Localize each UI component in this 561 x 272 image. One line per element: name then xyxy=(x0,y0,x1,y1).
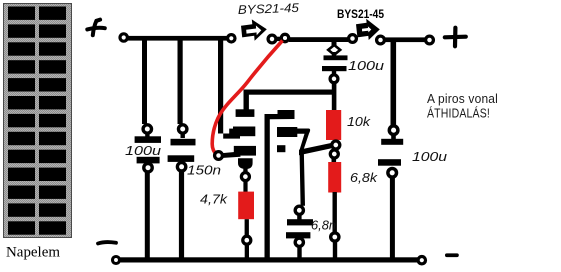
svg-text:150n: 150n xyxy=(187,164,221,178)
bottom rail left terminal circle xyxy=(113,257,120,264)
capacitor C2 plate 2 xyxy=(168,155,195,162)
node circle rail1 right xyxy=(228,35,235,42)
svg-text:Napelem: Napelem xyxy=(6,245,61,261)
capacitor C2 bottom circle xyxy=(177,163,185,171)
stub R3 circle to rail xyxy=(245,245,249,260)
resistor R2 6.8k (red) xyxy=(332,158,337,164)
wire drop to C4 xyxy=(391,40,397,126)
capacitor C4 plate 2 xyxy=(378,159,401,166)
plus terminal (panel +) xyxy=(87,20,105,36)
svg-text:6,8k: 6,8k xyxy=(350,171,378,185)
svg-text:BYS21-45: BYS21-45 xyxy=(337,7,384,21)
red jumper wire xyxy=(212,41,282,156)
node circle R2 bottom xyxy=(331,233,339,241)
svg-text:100u: 100u xyxy=(412,150,447,164)
wire Q1 base to node B (bends down) xyxy=(295,129,310,206)
wire rail 2 xyxy=(289,37,348,42)
capacitor C4 bottom circle xyxy=(388,169,397,178)
transistor Q1 collector plate with corner to ground wire xyxy=(265,110,295,259)
wire drop to C2 xyxy=(178,38,183,124)
node circle after D1 (a) xyxy=(268,35,276,43)
stub circle to R3 xyxy=(243,181,247,192)
thyristor TH1 plate 1 (anode) xyxy=(236,109,255,117)
diode D2 BYS21-45 (filled arrow) xyxy=(356,19,380,40)
bottom rail right terminal circle xyxy=(418,257,425,264)
svg-text:BYS21-45: BYS21-45 xyxy=(238,1,300,17)
svg-text:ÁTHIDALÁS!: ÁTHIDALÁS! xyxy=(427,106,490,121)
wire rail 3 xyxy=(385,37,425,42)
svg-text:4,7k: 4,7k xyxy=(200,193,228,207)
capacitor C5 stub xyxy=(297,214,301,220)
transistor Q1 emitter dash xyxy=(277,145,285,152)
capacitor C5 plate 2 xyxy=(286,232,310,238)
transistor Q1 base plate xyxy=(277,127,297,137)
capacitor C4 100u (right) top circle xyxy=(389,126,398,135)
node circle below R1 xyxy=(332,141,340,149)
thyristor TH1 plate 2 xyxy=(233,127,255,137)
wire drop to C1 xyxy=(142,38,147,124)
wire C1 to bottom rail xyxy=(145,173,150,261)
bottom rail xyxy=(119,257,419,262)
svg-text:6,8n: 6,8n xyxy=(311,219,336,233)
diode D1 BYS21-45 (outline arrow) xyxy=(241,19,267,40)
node A circle (jumper end) xyxy=(215,152,223,160)
capacitor C1 plate 1 xyxy=(135,136,161,143)
wire y92 horizontal (C3/R1 node to thyristor anode) xyxy=(244,90,335,95)
minus (panel -) xyxy=(98,242,116,243)
node circle R3 bottom xyxy=(243,236,251,244)
svg-text:100u: 100u xyxy=(348,59,384,73)
wire C2 to bottom rail xyxy=(179,172,184,261)
wire node B to R1/R2 junction xyxy=(299,143,331,155)
wire R2 bottom to circle xyxy=(333,192,337,233)
capacitor C1 100u (left) top circle xyxy=(143,125,151,133)
svg-text:10k: 10k xyxy=(347,115,371,129)
svg-text:A piros vonal: A piros vonal xyxy=(427,91,498,106)
capacitor C5 stub 2 xyxy=(297,237,301,241)
minus (output -) xyxy=(445,253,459,257)
thyristor TH1 cathode blob xyxy=(238,158,253,169)
wire C3 bottom to R1 top xyxy=(332,83,337,111)
capacitor C2 stub xyxy=(181,133,185,138)
resistor R1 10k (red) xyxy=(326,110,341,140)
capacitor C2 plate 1 xyxy=(171,139,196,146)
wire R3 bottom to circle xyxy=(245,219,249,236)
terminal circle rail1 left xyxy=(120,34,127,41)
capacitor C3 100u (top middle, polarized) xyxy=(322,41,348,83)
capacitor C4 plate 1 xyxy=(381,139,403,145)
output terminal circle + xyxy=(426,36,434,44)
thyristor TH1 plate 3 (gate) xyxy=(234,146,256,156)
capacitor C1 stub xyxy=(145,133,149,138)
svg-text:100u: 100u xyxy=(125,144,161,158)
plus output xyxy=(445,28,466,47)
capacitor C2 150n top circle xyxy=(179,125,187,133)
node circle after D1 (b) xyxy=(281,34,288,41)
stub R2 circle to rail xyxy=(333,241,337,259)
capacitor C4 stub xyxy=(391,135,396,140)
wire node A to plate 3 xyxy=(221,152,241,159)
wire drop x220 with L corner to thyristor plate xyxy=(218,38,240,139)
node circle after D2 xyxy=(377,36,385,44)
node circle above R2 xyxy=(330,150,338,158)
node circle before D2 xyxy=(349,35,357,43)
stub between node circles xyxy=(276,37,282,41)
wire C4 to bottom rail xyxy=(390,178,395,260)
thyristor TH1 stack: anode stub xyxy=(244,94,249,110)
wire top rail 1 xyxy=(126,36,229,41)
capacitor C5 bottom circle xyxy=(295,238,303,246)
resistor R3 4.7k (red) xyxy=(238,192,254,220)
stub C5 to rail xyxy=(297,247,301,260)
capacitor C1 bottom circle xyxy=(144,164,152,172)
capacitor C5 6.8n top circle xyxy=(295,206,303,214)
capacitor C5 plate 1 xyxy=(287,219,313,225)
stub blob to circle xyxy=(243,167,247,173)
node circle below TH1 xyxy=(241,173,249,181)
capacitor C1 plate 2 xyxy=(137,157,160,164)
solar panel PV1 xyxy=(4,4,72,238)
